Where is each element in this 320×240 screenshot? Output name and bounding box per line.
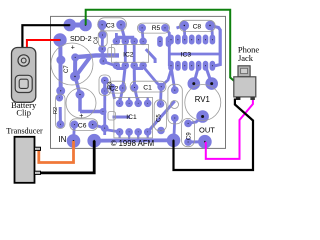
wire trace IC2 vertical 1	[124, 41, 127, 65]
wire trace IC1 top stubs	[120, 98, 148, 104]
wire trace IC3 pin to C1b	[163, 70, 171, 85]
board outline	[51, 16, 226, 148]
capacitor C8 outline	[180, 20, 216, 31]
wire trace ground bus bottom	[94, 138, 173, 142]
outline left of RV1	[168, 84, 182, 124]
capacitor C1 pads	[131, 83, 165, 91]
wire trace red pad down to cap pad	[58, 40, 62, 91]
wire trace horizontal to via	[80, 110, 103, 114]
wire orange transducer to IN	[39, 141, 74, 163]
label OUT	[199, 125, 215, 134]
wire trace IN pad to C6a	[72, 125, 76, 141]
wire trace R1 top to cap pad	[58, 91, 62, 98]
capacitor C9 outline	[182, 119, 195, 147]
capacitor C3 pads	[98, 21, 126, 30]
label C4 rotated	[94, 37, 100, 44]
label IC3	[181, 51, 192, 58]
svg-text:R2: R2	[53, 107, 59, 114]
wire black jack ground	[174, 99, 254, 171]
label Phone Jack	[238, 45, 259, 64]
wire trace mid-right column	[103, 81, 106, 92]
IC2 bottom row pads	[113, 62, 146, 69]
IC1 outline	[114, 97, 153, 137]
capacitor circle2 pad	[76, 91, 84, 99]
wire trace diagonal to ground pad	[148, 101, 175, 132]
wire trace IC2 pin to C1b diagonal	[143, 67, 161, 87]
via pad mid	[100, 109, 106, 115]
svg-text:IC1: IC1	[126, 114, 137, 121]
wire trace IC2 top bar	[116, 36, 134, 40]
svg-text:C3: C3	[106, 23, 115, 30]
label IC1	[126, 114, 137, 121]
pad A power	[64, 19, 76, 31]
pad OUT	[199, 135, 212, 148]
svg-text:OUT: OUT	[199, 125, 215, 134]
outline mid-right pair	[99, 75, 111, 96]
svg-text:Clip: Clip	[16, 108, 31, 118]
pad B power	[80, 19, 92, 31]
wire trace C1a down to IC1	[135, 88, 139, 104]
pad C7 plus	[72, 54, 79, 61]
capacitor C2 pads	[109, 84, 126, 91]
wire trace C3b to IC2 pin	[121, 25, 125, 42]
label copyright	[111, 139, 154, 148]
bracket left of IC2	[108, 48, 115, 58]
potentiometer RV1 circle	[185, 85, 221, 121]
label C1	[143, 84, 152, 91]
label Battery Clip	[11, 100, 37, 117]
svg-text:Transducer: Transducer	[6, 126, 43, 135]
label R3 rotated	[108, 82, 114, 89]
via pads right of IC2	[158, 37, 171, 47]
resistor R5 outline	[137, 23, 169, 33]
wire trace C3a down to C4	[100, 25, 104, 35]
wire trace IC1 pin to ground bus 1	[128, 132, 130, 141]
resistor R1 outline	[56, 94, 66, 129]
capacitor C9 pads	[185, 120, 192, 145]
label C6	[78, 123, 87, 130]
label RV1	[195, 95, 210, 104]
pad P3 red	[54, 34, 66, 46]
wire trace diagonal mid	[146, 49, 155, 63]
wire trace C9 top to RV1 wiper	[188, 117, 203, 124]
pad ground left	[88, 134, 101, 147]
label C5 rotated	[157, 114, 163, 122]
pads left of RV1	[171, 87, 178, 122]
label IC2	[123, 51, 134, 58]
wire trace IC1 pin to ground bus 2	[137, 132, 139, 141]
wire trace C1b down	[159, 87, 162, 104]
wire trace IC3 to RV1 left	[194, 66, 199, 84]
pad ground right	[167, 134, 180, 147]
wire trace mid-right down	[103, 91, 106, 128]
via on left vertical	[57, 56, 65, 64]
wire trace C4 internal	[101, 35, 104, 49]
wire trace R5a down	[142, 28, 143, 41]
capacitor C3 outline	[98, 18, 127, 31]
capacitor C6 pads	[71, 121, 97, 129]
wire trace IC2 vertical 2	[133, 41, 136, 65]
IC2 outline	[112, 45, 149, 63]
IC2 top row pads	[113, 38, 146, 45]
wire trace IC3 to RV1 right	[206, 66, 212, 84]
wire trace IC1 bottom stubs	[120, 132, 148, 138]
wire green to phone jack	[86, 10, 234, 81]
capacitor C1 outline	[130, 81, 166, 92]
capacitor C2 outline	[108, 81, 126, 93]
svg-text:IC2: IC2	[123, 51, 134, 58]
capacitor C8 pads	[180, 21, 214, 30]
pad IN	[67, 135, 80, 148]
svg-text:C6: C6	[78, 123, 87, 130]
svg-text:© 1998 AFM: © 1998 AFM	[111, 139, 154, 148]
mid right pads	[100, 58, 108, 132]
wire trace C9 to OUT pad	[188, 140, 205, 143]
wire trace IC2 pin1 up	[115, 33, 118, 41]
wire trace IC3 pin1 down	[171, 66, 175, 90]
label Transducer	[6, 126, 43, 135]
wire trace circle2 pad down	[78, 95, 82, 112]
label C8	[193, 23, 202, 30]
wire black transducer ground	[40, 141, 94, 173]
capacitor C7 pads	[57, 72, 80, 95]
phone jack	[234, 66, 256, 100]
svg-text:C1: C1	[143, 84, 152, 91]
capacitor C5 pads	[157, 101, 164, 134]
transducer	[15, 137, 41, 183]
label plus C7	[71, 45, 75, 52]
wire trace IC3 left bus	[168, 36, 171, 66]
IC3 top row pads	[169, 35, 215, 44]
svg-text:C9: C9	[187, 132, 193, 140]
svg-text:C4: C4	[94, 37, 100, 44]
bracket left of IC1	[108, 112, 116, 120]
label IN	[58, 135, 66, 144]
wire trace V+ bus pad A to pad B	[70, 23, 86, 28]
label SDD-2	[70, 34, 92, 43]
wire trace pad column left of RV1	[174, 118, 175, 140]
svg-text:SDD-2: SDD-2	[70, 34, 92, 43]
capacitor C6 outline	[70, 119, 98, 131]
wire trace diagonal C7 pad	[76, 56, 92, 77]
wire trace C2b down to IC1	[120, 88, 123, 103]
wire trace R1 internal	[59, 107, 62, 124]
wire trace C1a up	[133, 66, 136, 88]
label C3	[106, 23, 115, 30]
potentiometer RV1 pads	[188, 78, 218, 123]
label R2 rotated	[53, 107, 59, 114]
wire trace C8a down	[183, 26, 186, 39]
label R5	[152, 25, 161, 32]
wire trace C8b down	[211, 28, 214, 38]
wire trace IC3 mid horizontal	[169, 53, 220, 56]
capacitor C5 outline	[154, 100, 166, 131]
wire trace R5b elbow	[165, 28, 169, 38]
wire trace right bus vertical	[210, 26, 220, 67]
wire black battery positive	[22, 25, 69, 49]
svg-text:R5: R5	[152, 25, 161, 32]
capacitor C4 outline	[98, 31, 107, 47]
IC1 bottom row pads	[116, 129, 151, 136]
capacitor C7 circle	[51, 43, 93, 85]
wire red battery negative	[27, 40, 60, 49]
wire trace C7 center vertical	[73, 57, 77, 76]
svg-text:C5: C5	[157, 114, 163, 122]
wire trace IC2 bottom bar right	[134, 67, 143, 70]
wire trace pad to IC1 bottom	[105, 130, 120, 132]
svg-text:Jack: Jack	[238, 53, 254, 63]
wire trace C2 left stub	[112, 87, 115, 99]
wire trace into C8a	[177, 26, 185, 29]
resistor R1 pads	[56, 95, 64, 128]
wire trace C2 stub	[123, 66, 126, 89]
capacitor C4 pads	[99, 32, 106, 53]
svg-text:C8: C8	[193, 23, 202, 30]
wire trace C4b down to pad	[102, 49, 103, 61]
battery clip	[12, 48, 36, 103]
IC1 top row pads	[116, 100, 151, 107]
svg-text:+: +	[71, 45, 75, 52]
label C9 rotated	[187, 132, 193, 140]
svg-text:+: +	[79, 113, 83, 120]
IC3 bottom row pads	[169, 61, 215, 70]
wire trace circle2 pad stub	[75, 77, 80, 95]
wire trace C6b elbow	[93, 125, 105, 135]
silkscreen circle R4	[171, 101, 179, 109]
wire trace IC2 bottom bar left	[116, 67, 125, 70]
capacitor circle2	[66, 88, 96, 118]
label C2	[110, 85, 119, 92]
svg-text:C7: C7	[64, 65, 70, 73]
wire trace under IC1 label	[113, 116, 131, 119]
wire magenta jack to OUT	[206, 99, 253, 159]
label plus circle2	[79, 113, 83, 120]
wire trace long horizontal under C4	[75, 55, 119, 57]
wire trace pad to IC2 pin5	[103, 62, 116, 67]
svg-text:IC3: IC3	[181, 51, 192, 58]
label C7 rotated	[64, 65, 70, 73]
svg-text:R3: R3	[108, 82, 114, 89]
resistor R5 pads	[139, 25, 169, 32]
svg-text:IN: IN	[58, 135, 66, 144]
svg-text:RV1: RV1	[195, 95, 210, 104]
